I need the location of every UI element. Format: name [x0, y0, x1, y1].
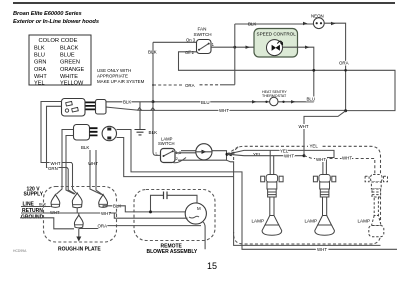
svg-text:BLU: BLU — [307, 97, 316, 102]
svg-text:SPEED CONTROL: SPEED CONTROL — [257, 31, 297, 36]
svg-text:COLOR CODE: COLOR CODE — [39, 38, 78, 44]
svg-text:Off 2: Off 2 — [185, 50, 195, 55]
svg-text:HCD99A: HCD99A — [13, 249, 27, 253]
svg-text:BLK: BLK — [34, 45, 45, 51]
svg-text:GRN: GRN — [48, 166, 58, 171]
svg-text:APPROPRIATE: APPROPRIATE — [97, 74, 128, 79]
svg-text:M: M — [197, 206, 201, 211]
svg-text:BLK: BLK — [248, 21, 256, 26]
svg-text:SUPPLY: SUPPLY — [24, 192, 44, 198]
svg-text:LAMP: LAMP — [252, 218, 265, 223]
svg-text:BLUE: BLUE — [60, 52, 75, 58]
svg-text:USE ONLY WITH: USE ONLY WITH — [97, 68, 131, 73]
svg-text:WHT: WHT — [299, 124, 309, 129]
svg-text:YEL: YEL — [310, 144, 319, 149]
svg-text:ORANGE: ORANGE — [60, 67, 85, 73]
svg-text:ORA: ORA — [339, 61, 349, 66]
svg-text:WHT: WHT — [316, 157, 326, 162]
svg-text:BLU: BLU — [201, 100, 210, 105]
svg-text:BLK: BLK — [123, 99, 131, 104]
svg-text:WHITE: WHITE — [60, 74, 78, 80]
svg-text:WHT: WHT — [284, 154, 294, 159]
svg-text:WHT: WHT — [342, 156, 352, 161]
svg-text:ORA: ORA — [185, 83, 195, 88]
svg-text:YELLOW: YELLOW — [60, 81, 84, 87]
svg-text:SWITCH: SWITCH — [158, 141, 175, 146]
svg-text:LAMP: LAMP — [305, 218, 318, 223]
svg-text:BLU: BLU — [34, 52, 45, 58]
svg-text:WHT: WHT — [34, 74, 47, 80]
svg-text:WHT: WHT — [317, 247, 327, 252]
svg-text:ROUGH-IN PLATE: ROUGH-IN PLATE — [58, 247, 101, 253]
svg-text:GREEN: GREEN — [60, 60, 80, 66]
svg-text:Exterior or In-Line blower hoo: Exterior or In-Line blower hoods — [13, 19, 99, 25]
svg-text:BLACK: BLACK — [60, 45, 79, 51]
svg-text:WHT: WHT — [219, 108, 229, 113]
svg-text:BLK: BLK — [81, 145, 89, 150]
svg-text:BLOWER ASSEMBLY: BLOWER ASSEMBLY — [147, 249, 198, 255]
svg-text:MAKE UP AIR SYSTEM: MAKE UP AIR SYSTEM — [97, 79, 145, 84]
svg-text:LAMP: LAMP — [358, 218, 371, 223]
svg-text:FAN: FAN — [198, 27, 207, 32]
svg-text:On 3: On 3 — [186, 38, 196, 43]
svg-text:ORA: ORA — [98, 223, 108, 228]
svg-text:GRN: GRN — [34, 60, 46, 66]
svg-text:ORA: ORA — [34, 67, 46, 73]
svg-text:SWITCH: SWITCH — [194, 32, 212, 37]
svg-text:WHT: WHT — [101, 211, 111, 216]
svg-text:BLK: BLK — [148, 50, 158, 55]
svg-text:Broan Elite E60000 Series: Broan Elite E60000 Series — [13, 11, 82, 17]
svg-text:15: 15 — [207, 261, 217, 271]
svg-text:YEL: YEL — [34, 81, 45, 87]
svg-text:YEL: YEL — [253, 152, 262, 157]
